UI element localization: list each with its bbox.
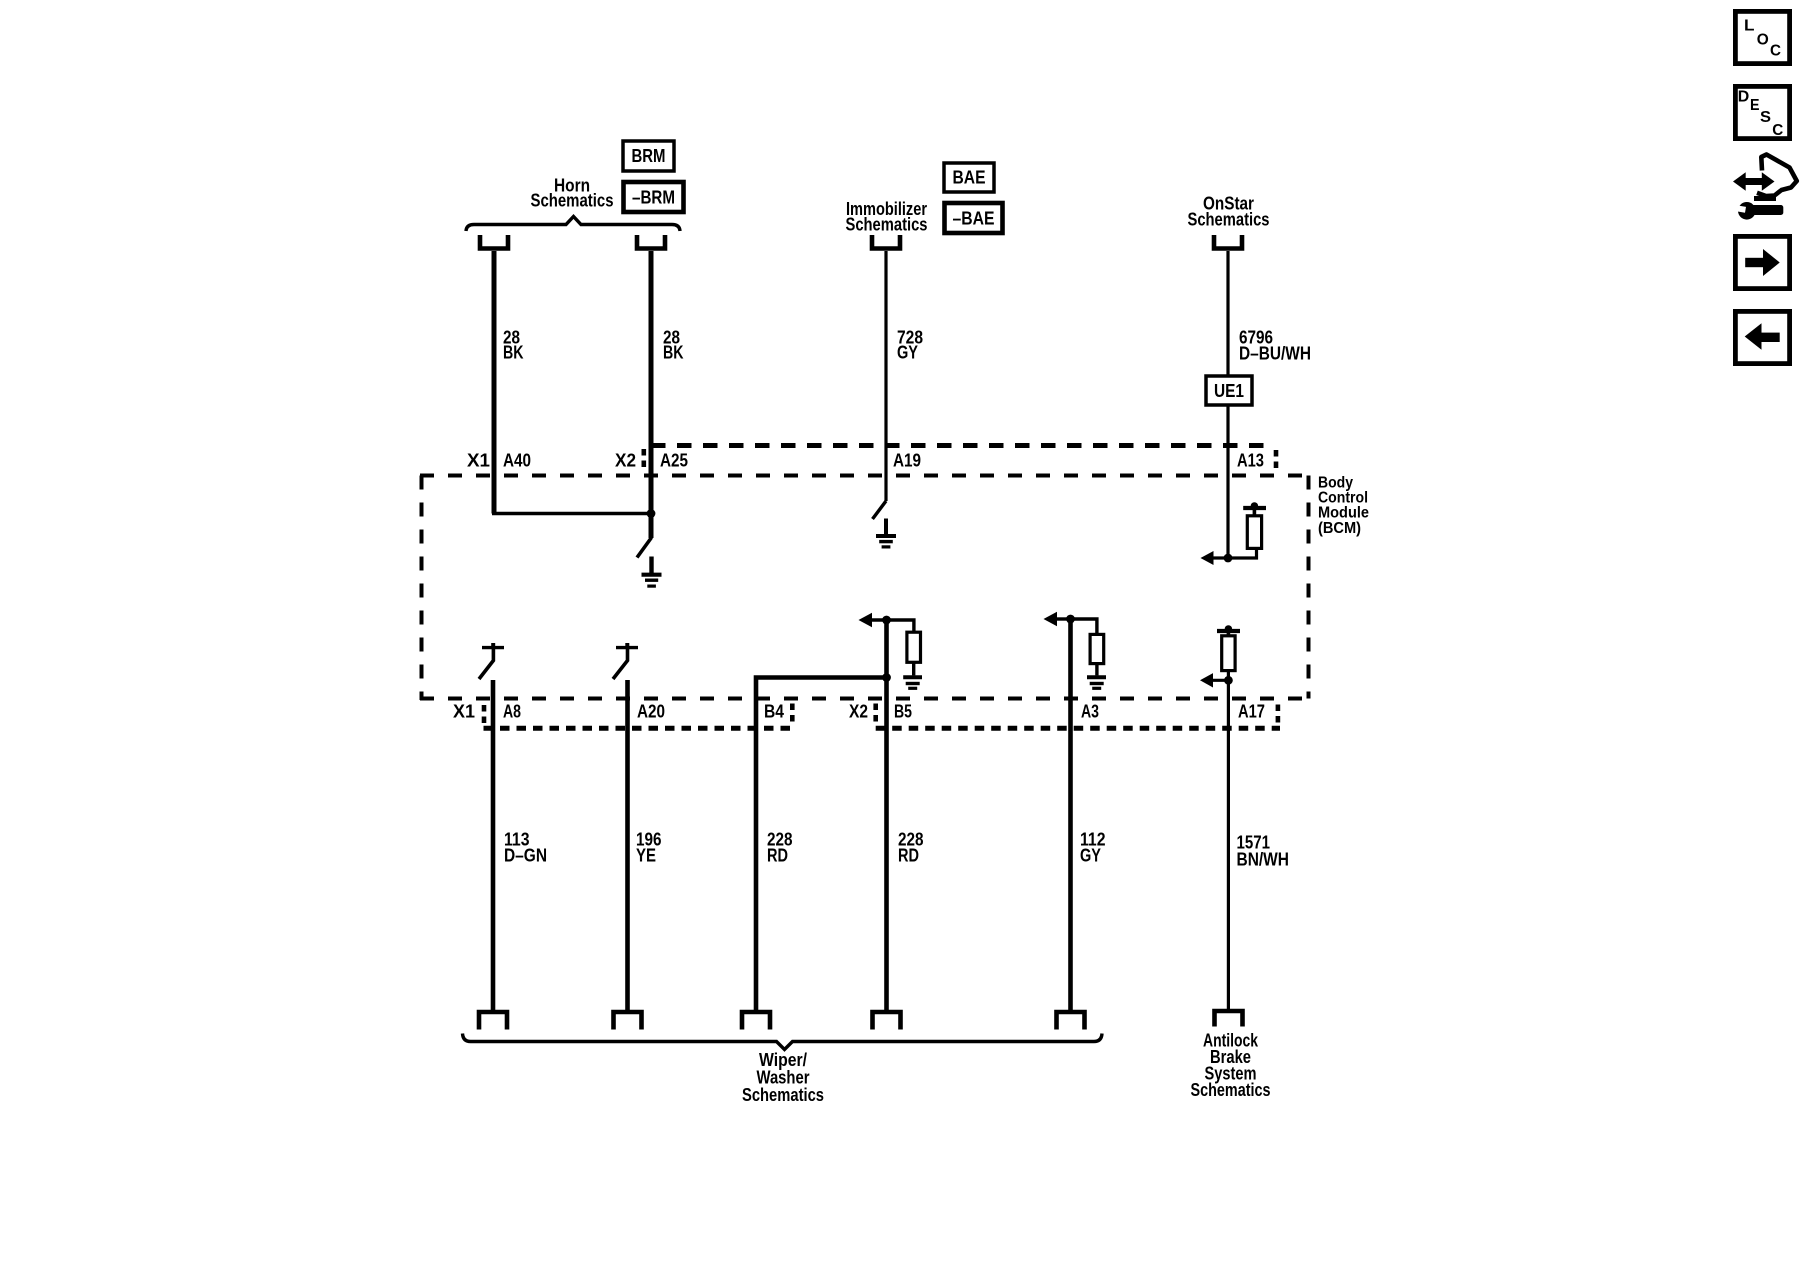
wire 6796 D-BU/WH onstar (A13) <box>1226 251 1229 558</box>
connector face dotted line bottom row left (X1 connector) <box>484 726 793 731</box>
icon box arrow right <box>1735 236 1789 288</box>
label box -BRM <box>624 182 684 212</box>
svg-text:RD: RD <box>898 846 919 866</box>
BCM dashed border right <box>1307 476 1311 699</box>
icon box arrow left <box>1735 311 1789 363</box>
connector separator X1 bottom <box>482 705 487 726</box>
ground A19 internal <box>884 519 888 535</box>
svg-text:A3: A3 <box>1081 702 1099 722</box>
resistor A13 pull-up <box>1247 516 1261 549</box>
svg-text:(BCM): (BCM) <box>1318 520 1361 537</box>
BCM dashed border left <box>420 476 424 701</box>
svg-text:–BAE: –BAE <box>953 209 995 229</box>
svg-text:D–BU/WH: D–BU/WH <box>1239 344 1311 364</box>
svg-text:X1: X1 <box>467 451 490 471</box>
label box BAE <box>944 163 994 192</box>
label box -BAE <box>945 203 1003 233</box>
ground B5 resistor <box>903 675 922 679</box>
svg-text:BN/WH: BN/WH <box>1237 850 1290 870</box>
connector bottom A20 <box>614 1012 642 1030</box>
icon bent arrow outline <box>1757 155 1797 197</box>
connector bottom A17 <box>1215 1011 1243 1027</box>
connector top immobilizer <box>872 235 900 249</box>
svg-text:YE: YE <box>636 846 656 866</box>
svg-text:Module: Module <box>1318 505 1369 522</box>
svg-text:X1: X1 <box>453 702 475 722</box>
svg-text:GY: GY <box>1080 846 1101 866</box>
svg-text:BAE: BAE <box>953 168 986 188</box>
svg-text:B5: B5 <box>894 702 912 722</box>
svg-text:Schematics: Schematics <box>846 215 928 235</box>
svg-text:RD: RD <box>767 846 788 866</box>
icon box DESC <box>1735 86 1789 138</box>
junction dot A25 node <box>647 509 656 518</box>
icon box LOC <box>1735 11 1789 63</box>
resistor A17 pull-up <box>1227 633 1231 636</box>
wire 196 YE (A20) <box>625 680 630 1010</box>
svg-text:Schematics: Schematics <box>531 191 614 211</box>
connector face dotted line bottom row right (X2 connector) <box>876 726 1280 731</box>
svg-text:BRM: BRM <box>632 146 666 166</box>
connector separator X2 top <box>641 449 646 471</box>
label box BRM <box>623 141 674 171</box>
connector bottom A8 <box>479 1012 507 1030</box>
arrow B5 signal left <box>870 618 887 621</box>
connector bottom B5 <box>873 1012 901 1030</box>
ground A25 internal <box>649 557 653 574</box>
junction dot B4-B5 <box>882 673 891 682</box>
svg-text:UE1: UE1 <box>1214 381 1244 401</box>
svg-text:A13: A13 <box>1237 451 1264 471</box>
wire B4 to B5 link <box>756 678 887 1011</box>
arrow A3 signal left <box>1055 617 1071 620</box>
supply T-bar A17 <box>1217 629 1240 633</box>
brace Horn Schematics group <box>466 217 680 232</box>
svg-text:BK: BK <box>503 343 524 363</box>
svg-text:S: S <box>1760 109 1771 126</box>
svg-text:B4: B4 <box>764 702 784 722</box>
icon wrench <box>1738 202 1756 220</box>
BCM dashed border bottom <box>420 697 1308 701</box>
wire 1571 BN/WH (A17) <box>1227 680 1230 1010</box>
svg-text:A20: A20 <box>637 702 665 722</box>
wire 112 GY (A3) <box>1068 619 1073 1010</box>
svg-text:E: E <box>1750 97 1760 114</box>
svg-text:BK: BK <box>663 343 684 363</box>
svg-text:D: D <box>1738 88 1750 105</box>
connector bottom B4 <box>742 1012 770 1030</box>
arrow A17 signal left <box>1211 679 1228 682</box>
resistor B5 pull-down <box>887 620 914 632</box>
svg-text:C: C <box>1770 43 1781 60</box>
junction dot B5 node <box>882 616 891 625</box>
icon double arrow <box>1744 178 1764 185</box>
svg-text:Schematics: Schematics <box>1191 1080 1271 1100</box>
svg-text:A19: A19 <box>893 451 921 471</box>
BCM dashed border top <box>420 474 1308 478</box>
junction dot A3 node <box>1066 615 1075 624</box>
svg-text:A25: A25 <box>660 451 688 471</box>
wire 228 RD (B5) <box>884 620 889 1010</box>
svg-text:–BRM: –BRM <box>632 188 675 208</box>
connector separator X2 bottom <box>873 704 878 723</box>
svg-text:X2: X2 <box>849 702 868 722</box>
brace Wiper/Washer Schematics group <box>463 1034 1103 1050</box>
svg-text:Schematics: Schematics <box>742 1085 824 1105</box>
wire 728 GY immobilizer (A19) <box>884 251 887 501</box>
switch A20 internal contact <box>616 646 638 649</box>
wire 113 D-GN (A8) <box>491 680 496 1010</box>
connector top horn right <box>637 235 665 249</box>
connector separator A13 <box>1274 450 1279 470</box>
wire link A40 to A25 <box>492 512 651 515</box>
wire 28 BK horn right (X2-A25) <box>649 251 654 538</box>
arrow A13 signal left <box>1211 548 1257 558</box>
svg-text:GY: GY <box>897 343 918 363</box>
connector separator B4 <box>790 704 795 723</box>
junction dot A13 node <box>1224 554 1233 563</box>
svg-text:O: O <box>1757 32 1769 49</box>
switch A8 internal contact <box>482 646 504 649</box>
svg-text:A8: A8 <box>503 702 521 722</box>
svg-text:A17: A17 <box>1238 702 1265 722</box>
svg-text:A40: A40 <box>503 451 531 471</box>
switch A25 internal <box>637 538 652 558</box>
connector bottom A3 <box>1057 1012 1085 1030</box>
connector top onstar <box>1214 235 1242 249</box>
svg-text:L: L <box>1744 18 1755 35</box>
svg-text:X2: X2 <box>615 451 636 471</box>
connector top horn left <box>480 235 508 249</box>
resistor A3 pull-down <box>1071 619 1097 634</box>
svg-text:Schematics: Schematics <box>1188 210 1270 230</box>
connector separator A17 <box>1276 705 1281 725</box>
switch A19 internal <box>873 501 887 519</box>
junction dot A17 node <box>1224 676 1233 685</box>
label box UE1 <box>1206 376 1252 405</box>
connector face dotted line top row (X2 connector) <box>651 443 1272 448</box>
svg-text:C: C <box>1772 122 1783 139</box>
svg-text:D–GN: D–GN <box>504 846 547 866</box>
wire 28 BK horn left (X1-A40) <box>492 251 497 514</box>
supply T-bar A13 <box>1243 506 1266 510</box>
ground A3 resistor <box>1087 675 1106 679</box>
